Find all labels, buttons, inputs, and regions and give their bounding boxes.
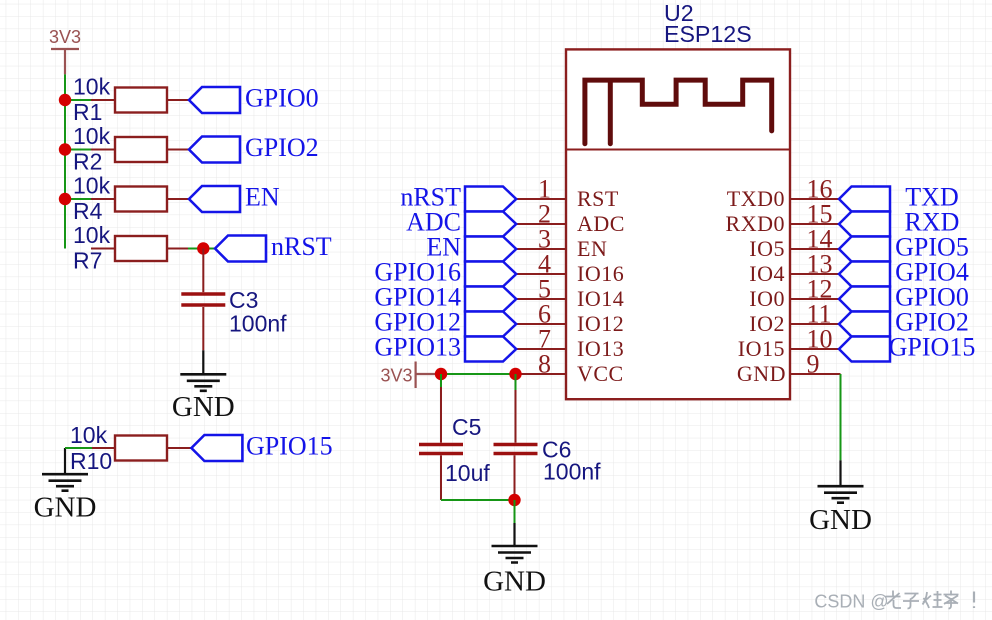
port stack left: EN flag xyxy=(465,237,516,262)
pin 4 IO16 xyxy=(516,250,624,287)
wire 3V3 vertical bus xyxy=(64,74,66,248)
ground GND (pin 9) xyxy=(809,460,872,536)
junction node nRST xyxy=(197,242,209,254)
pin 9 GND xyxy=(737,350,841,387)
port stack left: GPIO16 flag xyxy=(465,262,516,287)
pin 3 EN xyxy=(516,225,607,262)
port stack right: GPIO0 flag xyxy=(839,287,890,312)
antenna meander xyxy=(585,80,772,144)
svg-text:CSDN @: CSDN @ xyxy=(814,592,888,612)
svg-text:10k: 10k xyxy=(73,123,111,149)
capacitor C5 xyxy=(419,414,490,486)
svg-text:RXD0: RXD0 xyxy=(726,211,785,236)
svg-text:IO0: IO0 xyxy=(749,286,785,311)
svg-text:IO14: IO14 xyxy=(577,286,624,311)
svg-text:9: 9 xyxy=(807,350,820,379)
wire C3 upper xyxy=(202,249,204,293)
port stack right: GPIO4 flag xyxy=(839,262,890,287)
wire row R1 xyxy=(65,99,91,101)
junction node row2 xyxy=(59,143,71,155)
svg-text:GPIO15: GPIO15 xyxy=(246,432,333,461)
port stack left: ADC flag xyxy=(465,212,516,237)
ground GND (C5/C6) xyxy=(483,523,546,598)
svg-text:3V3: 3V3 xyxy=(49,27,81,47)
resistor R10 xyxy=(70,422,191,474)
pin 5 IO14 xyxy=(516,275,624,312)
svg-text:EN: EN xyxy=(577,236,607,261)
wire bottom rail xyxy=(441,499,515,501)
pin 14 IO5 xyxy=(749,225,839,262)
power 3V3 top-left xyxy=(49,27,81,74)
port GPIO15 (left) xyxy=(191,432,332,462)
port GPIO0 xyxy=(189,84,319,114)
svg-text:10k: 10k xyxy=(73,173,111,199)
wire GND pin9 drop xyxy=(840,374,842,460)
port stack right: GPIO2 flag xyxy=(839,312,890,337)
svg-text:GPIO13: GPIO13 xyxy=(374,333,461,362)
svg-text:RST: RST xyxy=(577,186,619,211)
port stack left: GPIO13 flag xyxy=(465,337,516,362)
svg-text:GND: GND xyxy=(34,492,97,524)
svg-text:100nf: 100nf xyxy=(229,311,287,337)
port stack right: GPIO15 flag xyxy=(839,337,890,362)
port nRST xyxy=(215,232,332,262)
wire R7 to node xyxy=(188,248,215,250)
svg-text:IO12: IO12 xyxy=(577,311,624,336)
resistor R2 xyxy=(73,123,189,175)
svg-text:GPIO2: GPIO2 xyxy=(245,133,319,162)
port GPIO2 xyxy=(189,133,319,163)
svg-text:IO13: IO13 xyxy=(577,336,624,361)
pin 6 IO12 xyxy=(516,300,624,337)
wire C6 upper xyxy=(515,374,517,390)
svg-text:10k: 10k xyxy=(70,422,108,448)
pin 7 IO13 xyxy=(516,325,624,362)
capacitor C6 xyxy=(494,437,602,485)
svg-text:8: 8 xyxy=(538,350,551,379)
pin 16 TXD0 xyxy=(727,175,839,212)
pin 8 VCC xyxy=(516,350,624,387)
junction node row1 xyxy=(59,94,71,106)
svg-text:GND: GND xyxy=(737,361,786,386)
svg-text:GND: GND xyxy=(809,504,872,536)
svg-text:IO16: IO16 xyxy=(577,261,624,286)
junction node VCC-C5 xyxy=(435,368,447,380)
svg-text:R2: R2 xyxy=(73,149,102,175)
port stack right: TXD flag xyxy=(839,187,890,212)
port EN xyxy=(189,183,280,213)
junction node row3 xyxy=(59,193,71,205)
component U2 body xyxy=(566,0,790,399)
pin 12 IO0 xyxy=(749,275,839,312)
wire C6 lower xyxy=(514,455,516,500)
svg-text:IO5: IO5 xyxy=(749,236,785,261)
svg-text:C5: C5 xyxy=(452,414,481,440)
wire to ground xyxy=(514,500,516,523)
svg-text:R1: R1 xyxy=(73,99,102,125)
pin 1 RST xyxy=(516,175,619,212)
svg-text:EN: EN xyxy=(245,183,280,212)
wire R10 left xyxy=(65,447,92,449)
pin 13 IO4 xyxy=(749,250,839,287)
svg-text:10k: 10k xyxy=(73,74,111,100)
junction node cap bottom xyxy=(508,494,520,506)
svg-text:R4: R4 xyxy=(73,198,103,224)
svg-text:GPIO15: GPIO15 xyxy=(889,333,976,362)
wire C3 lower xyxy=(202,307,204,350)
ground GND (C3) xyxy=(172,350,235,423)
ground GND (R10 left) xyxy=(34,448,97,524)
svg-text:10k: 10k xyxy=(73,222,111,248)
port stack right: RXD flag xyxy=(839,212,890,237)
wire C5 upper xyxy=(440,374,442,387)
svg-text:IO4: IO4 xyxy=(749,261,785,286)
svg-text:IO15: IO15 xyxy=(738,336,785,361)
svg-text:100nf: 100nf xyxy=(543,458,601,484)
pin 10 IO15 xyxy=(738,325,839,362)
svg-text:3V3: 3V3 xyxy=(381,366,413,386)
svg-text:VCC: VCC xyxy=(577,361,624,386)
resistor R4 xyxy=(73,173,189,225)
pin 2 ADC xyxy=(516,200,625,237)
resistor R7 xyxy=(73,222,188,274)
port stack left: nRST flag xyxy=(465,187,516,212)
capacitor C3 xyxy=(181,287,287,337)
wire C5 lower xyxy=(440,455,442,500)
svg-text:C3: C3 xyxy=(229,287,258,313)
pin 15 RXD0 xyxy=(726,200,839,237)
watermark CSDN xyxy=(814,591,974,612)
port stack left: GPIO12 flag xyxy=(465,312,516,337)
junction node VCC-C6 xyxy=(509,368,521,380)
power 3V3 at VCC xyxy=(381,362,442,389)
svg-text:ADC: ADC xyxy=(577,211,625,236)
resistor R1 xyxy=(73,74,189,126)
svg-text:GPIO0: GPIO0 xyxy=(245,84,319,113)
svg-text:GND: GND xyxy=(483,566,546,598)
pin 11 IO2 xyxy=(749,300,839,337)
svg-text:R10: R10 xyxy=(70,448,112,474)
wire row R4 xyxy=(65,198,91,200)
wire row R2 xyxy=(65,149,91,151)
svg-text:ESP12S: ESP12S xyxy=(664,21,752,47)
port stack right: GPIO5 flag xyxy=(839,237,890,262)
svg-text:GND: GND xyxy=(172,391,235,423)
svg-text:nRST: nRST xyxy=(271,232,332,261)
wire VCC rail xyxy=(441,373,516,375)
svg-text:IO2: IO2 xyxy=(749,311,785,336)
port stack left: GPIO14 flag xyxy=(465,287,516,312)
svg-text:R7: R7 xyxy=(73,248,102,274)
svg-text:10uf: 10uf xyxy=(445,460,490,486)
svg-text:TXD0: TXD0 xyxy=(727,186,785,211)
